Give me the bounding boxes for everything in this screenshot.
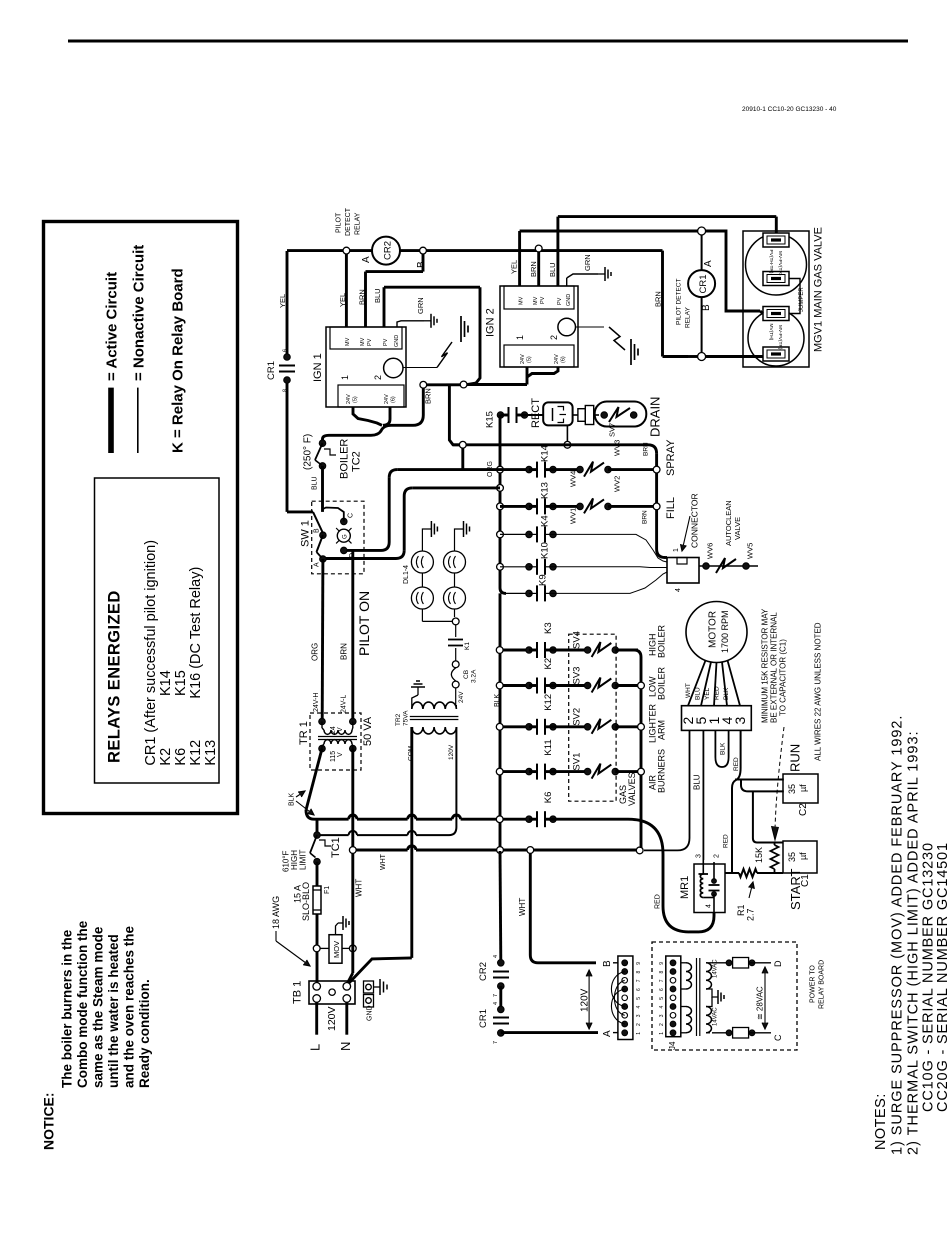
svg-text:RED: RED	[714, 686, 721, 700]
svg-text:8: 8	[659, 971, 665, 974]
svg-text:BLK: BLK	[289, 792, 296, 806]
svg-text:B: B	[314, 528, 321, 533]
svg-text:RELAY: RELAY	[355, 212, 362, 235]
svg-text:BRN: BRN	[529, 261, 538, 277]
svg-text:SV1: SV1	[572, 753, 583, 771]
svg-text:PV: PV	[383, 338, 389, 346]
svg-text:1700 RPM: 1700 RPM	[720, 610, 730, 653]
svg-text:C2: C2	[798, 803, 809, 816]
svg-text:START: START	[788, 869, 803, 910]
svg-text:SV3: SV3	[572, 667, 583, 685]
svg-text:115: 115	[330, 751, 337, 762]
svg-text:14VAC: 14VAC	[713, 1007, 719, 1026]
svg-text:2: 2	[659, 1023, 665, 1026]
svg-text:YEL: YEL	[278, 294, 287, 308]
svg-text:BE EXTERNAL OR INTERNAL: BE EXTERNAL OR INTERNAL	[770, 612, 779, 723]
svg-text:MINIMUM 15K RESISTOR MAY: MINIMUM 15K RESISTOR MAY	[761, 608, 770, 723]
svg-text:PV: PV	[540, 296, 546, 304]
svg-text:(5): (5)	[527, 356, 533, 363]
svg-text:3.2A: 3.2A	[471, 669, 478, 683]
svg-text:120V: 120V	[580, 988, 591, 1012]
svg-text:3: 3	[696, 854, 703, 858]
svg-text:SV7: SV7	[608, 423, 617, 437]
svg-text:ALL WIRES 22 AWG UNLESS NOTED: ALL WIRES 22 AWG UNLESS NOTED	[814, 622, 823, 761]
svg-text:WHT: WHT	[355, 879, 364, 897]
svg-text:TR 1: TR 1	[298, 721, 310, 745]
svg-text:K11: K11	[543, 739, 554, 755]
svg-text:SV2: SV2	[572, 708, 583, 726]
svg-text:WV6: WV6	[706, 543, 715, 559]
svg-text:WV2: WV2	[613, 476, 622, 492]
svg-text:YEL: YEL	[510, 260, 519, 274]
svg-text:C: C	[348, 513, 355, 518]
svg-text:50 VA: 50 VA	[362, 716, 374, 746]
svg-text:3: 3	[659, 1014, 665, 1017]
svg-text:BOILER: BOILER	[339, 439, 351, 479]
svg-text:B: B	[416, 261, 427, 268]
svg-text:CR1: CR1	[266, 361, 277, 380]
svg-text:L: L	[308, 1044, 323, 1051]
svg-text:120V: 120V	[326, 1006, 338, 1031]
svg-text:= Active Circuit: = Active Circuit	[104, 272, 121, 381]
svg-text:75VA: 75VA	[403, 710, 410, 726]
svg-text:BLU: BLU	[693, 774, 702, 790]
svg-text:24V: 24V	[384, 394, 390, 404]
svg-text:A: A	[361, 256, 372, 263]
svg-text:4: 4	[493, 955, 499, 958]
svg-text:R1: R1	[736, 904, 746, 916]
svg-text:D: D	[773, 960, 783, 967]
svg-text:7: 7	[493, 1041, 499, 1044]
svg-text:7: 7	[659, 979, 665, 982]
svg-text:CC20G - SERIAL NUMBER GC14501: CC20G - SERIAL NUMBER GC14501	[935, 842, 950, 1112]
svg-text:(5): (5)	[353, 396, 359, 403]
svg-text:TO CAPACITOR (C1): TO CAPACITOR (C1)	[779, 639, 788, 716]
svg-text:PV: PV	[557, 297, 563, 305]
svg-text:B: B	[701, 304, 712, 311]
svg-text:24V-L: 24V-L	[341, 695, 348, 713]
svg-text:MV(TH): MV(TH)	[768, 324, 774, 341]
svg-text:RED: RED	[723, 834, 730, 848]
svg-text:2.7: 2.7	[746, 908, 756, 921]
svg-text:MV-PV(TR): MV-PV(TR)	[777, 325, 783, 350]
svg-text:K16 (DC Test Relay): K16 (DC Test Relay)	[188, 567, 204, 699]
svg-text:BLK: BLK	[723, 687, 730, 700]
svg-text:120V: 120V	[448, 744, 455, 760]
svg-text:WV1: WV1	[569, 508, 578, 524]
svg-text:K13: K13	[203, 740, 219, 766]
svg-text:K9: K9	[538, 574, 549, 586]
svg-text:µf: µf	[798, 784, 808, 792]
svg-text:Ready condition.: Ready condition.	[137, 979, 152, 1088]
svg-text:POWER TO: POWER TO	[810, 965, 817, 1003]
svg-text:K12: K12	[188, 740, 204, 766]
svg-text:FILL: FILL	[665, 497, 677, 519]
svg-text:BRN: BRN	[340, 643, 349, 660]
svg-text:5: 5	[659, 997, 665, 1000]
svg-text:RED: RED	[733, 757, 740, 771]
svg-text:GRN: GRN	[583, 254, 592, 271]
svg-text:WV5: WV5	[746, 543, 755, 559]
svg-text:WHT: WHT	[380, 853, 387, 870]
svg-text:MV: MV	[345, 337, 351, 346]
svg-text:K14: K14	[540, 445, 551, 462]
svg-text:PV(TH-TR): PV(TH-TR)	[768, 250, 774, 274]
svg-text:6: 6	[283, 349, 289, 352]
svg-text:SLO-BLO: SLO-BLO	[301, 882, 311, 921]
svg-text:JUMPER: JUMPER	[799, 287, 805, 312]
svg-text:RELAY BOARD: RELAY BOARD	[819, 960, 826, 1009]
svg-text:GND: GND	[566, 294, 572, 306]
svg-text:24V: 24V	[554, 354, 560, 364]
svg-text:4: 4	[659, 1006, 665, 1009]
svg-text:K2: K2	[543, 658, 554, 670]
svg-text:20910-1 CC10-20 GC13230 - 40: 20910-1 CC10-20 GC13230 - 40	[742, 106, 837, 113]
svg-text:CR2: CR2	[478, 962, 489, 981]
svg-text:8: 8	[636, 971, 642, 974]
svg-text:K14: K14	[158, 670, 174, 696]
svg-text:Combo mode function the: Combo mode function the	[75, 920, 90, 1088]
svg-text:6: 6	[636, 988, 642, 991]
svg-text:3: 3	[732, 717, 748, 725]
svg-text:PILOT DETECT: PILOT DETECT	[676, 278, 683, 325]
svg-text:MV: MV	[360, 337, 366, 346]
svg-text:G: G	[343, 534, 349, 539]
svg-text:5: 5	[636, 997, 642, 1000]
svg-text:DL1-4: DL1-4	[403, 565, 410, 584]
svg-text:BLU: BLU	[695, 687, 702, 700]
svg-text:24: 24	[330, 726, 337, 734]
svg-text:C: C	[773, 1034, 783, 1041]
svg-text:BRN: BRN	[358, 289, 367, 305]
svg-text:1: 1	[515, 335, 525, 340]
svg-text:DETECT: DETECT	[345, 207, 352, 236]
svg-text:RECT: RECT	[530, 398, 542, 428]
svg-text:4: 4	[675, 588, 682, 592]
svg-text:2) THERMAL SWITCH (HIGH LIMIT): 2) THERMAL SWITCH (HIGH LIMIT) ADDED APR…	[906, 730, 922, 1155]
svg-text:2: 2	[636, 1023, 642, 1026]
svg-text:LIMIT: LIMIT	[299, 849, 308, 870]
svg-text:WV4: WV4	[569, 471, 578, 487]
svg-text:MGV1 MAIN GAS VALVE: MGV1 MAIN GAS VALVE	[813, 227, 825, 352]
svg-text:(6): (6)	[391, 396, 397, 403]
svg-text:RED: RED	[655, 894, 662, 909]
svg-text:18 AWG: 18 AWG	[271, 896, 281, 929]
svg-text:RELAY: RELAY	[685, 307, 692, 328]
svg-text:6: 6	[659, 988, 665, 991]
svg-text:35: 35	[787, 852, 797, 862]
svg-text:TC1: TC1	[330, 837, 342, 858]
svg-text:1: 1	[340, 375, 350, 380]
svg-text:7: 7	[493, 994, 499, 997]
svg-text:1) SURGE SUPPRESSOR (MOV) ADDE: 1) SURGE SUPPRESSOR (MOV) ADDED FEBRUARY…	[890, 715, 906, 1155]
svg-text:TR2: TR2	[395, 713, 402, 726]
svg-text:K6: K6	[173, 748, 189, 766]
svg-text:RELAYS ENERGIZED: RELAYS ENERGIZED	[106, 590, 124, 763]
svg-text:K6: K6	[543, 792, 554, 804]
svg-text:7: 7	[636, 979, 642, 982]
svg-text:K3: K3	[543, 622, 554, 634]
svg-text:A: A	[314, 562, 321, 567]
svg-text:IGN 2: IGN 2	[485, 308, 497, 337]
svg-text:WHT: WHT	[685, 683, 692, 698]
svg-text:24V: 24V	[520, 354, 526, 364]
svg-text:K2: K2	[158, 748, 174, 766]
svg-text:24V-H: 24V-H	[313, 693, 320, 712]
svg-text:GRN: GRN	[416, 297, 425, 314]
svg-text:BLU: BLU	[373, 288, 382, 303]
svg-text:K15: K15	[173, 670, 189, 696]
svg-text:YEL: YEL	[338, 293, 347, 307]
svg-text:BLU: BLU	[312, 476, 319, 490]
svg-text:F1: F1	[324, 886, 331, 894]
svg-text:BLK: BLK	[720, 742, 727, 755]
svg-text:ORG: ORG	[311, 643, 320, 661]
svg-text:1: 1	[636, 1032, 642, 1035]
svg-text:K1: K1	[464, 642, 471, 650]
svg-text:WV3: WV3	[613, 440, 622, 456]
svg-text:and the oven reaches the: and the oven reaches the	[122, 925, 137, 1088]
svg-text:IGN 1: IGN 1	[312, 353, 324, 382]
svg-text:MV: MV	[519, 296, 525, 305]
svg-text:SW 1: SW 1	[300, 520, 312, 547]
svg-text:BLK: BLK	[494, 693, 501, 707]
svg-text:until the water is heated: until the water is heated	[106, 934, 121, 1088]
svg-text:PILOT ON: PILOT ON	[356, 591, 372, 656]
svg-text:24V: 24V	[458, 691, 465, 703]
svg-text:YEL: YEL	[704, 687, 711, 700]
svg-text:GND: GND	[394, 335, 400, 347]
svg-text:CR2: CR2	[383, 241, 394, 260]
svg-text:N: N	[338, 1042, 353, 1051]
svg-text:1: 1	[673, 548, 680, 552]
svg-text:CR1: CR1	[478, 1009, 489, 1028]
svg-text:A: A	[602, 1030, 613, 1037]
svg-text:RUN: RUN	[788, 744, 803, 772]
svg-text:MOTOR: MOTOR	[708, 611, 719, 648]
svg-text:ARM: ARM	[657, 720, 667, 740]
svg-text:4: 4	[706, 904, 713, 908]
svg-text:2: 2	[549, 335, 559, 340]
svg-text:A: A	[703, 260, 714, 267]
svg-text:J4: J4	[668, 1041, 677, 1050]
svg-text:TB 1: TB 1	[292, 981, 304, 1004]
svg-text:µf: µf	[798, 852, 808, 860]
svg-text:K15: K15	[485, 411, 496, 428]
svg-text:same as the Steam mode: same as the Steam mode	[91, 926, 106, 1088]
svg-text:BOILER: BOILER	[657, 624, 667, 658]
svg-text:BRN: BRN	[642, 510, 649, 524]
svg-text:GND: GND	[367, 1005, 374, 1021]
svg-text:SPRAY: SPRAY	[665, 439, 677, 476]
svg-text:WHT: WHT	[518, 898, 527, 916]
svg-text:4: 4	[493, 1002, 499, 1005]
svg-text:3: 3	[636, 1014, 642, 1017]
svg-text:(6): (6)	[561, 356, 567, 363]
svg-text:MR1: MR1	[679, 876, 691, 899]
svg-text:≅ 28VAC: ≅ 28VAC	[756, 986, 765, 1020]
svg-text:BLU: BLU	[548, 262, 557, 277]
svg-text:CR1: CR1	[698, 274, 709, 293]
svg-text:MV-PV(TR): MV-PV(TR)	[777, 251, 783, 276]
svg-text:K = Relay On Relay Board: K = Relay On Relay Board	[170, 268, 187, 453]
svg-text:BRN: BRN	[424, 388, 433, 404]
svg-text:14VAC: 14VAC	[713, 959, 719, 978]
svg-text:PV: PV	[367, 338, 373, 346]
svg-text:9: 9	[659, 962, 665, 965]
svg-text:CR1 (After successful pilot ig: CR1 (After successful pilot ignition)	[143, 540, 159, 766]
svg-text:(250° F): (250° F)	[303, 434, 314, 470]
svg-text:4: 4	[636, 1006, 642, 1009]
svg-text:= Nonactive Circuit: = Nonactive Circuit	[131, 245, 148, 381]
svg-text:CB: CB	[463, 670, 470, 679]
svg-text:2: 2	[373, 375, 383, 380]
svg-text:AUTOCLEAN: AUTOCLEAN	[724, 500, 733, 546]
svg-text:8: 8	[283, 389, 289, 392]
svg-text:35: 35	[787, 784, 797, 794]
svg-text:MV: MV	[533, 296, 539, 305]
svg-text:BRN: BRN	[654, 291, 663, 307]
svg-text:BURNERS: BURNERS	[657, 749, 667, 793]
svg-text:K12: K12	[543, 694, 554, 711]
svg-text:K10: K10	[540, 542, 551, 559]
svg-text:15K: 15K	[754, 847, 764, 863]
svg-text:DRAIN: DRAIN	[648, 397, 663, 437]
svg-text:V: V	[337, 752, 344, 757]
svg-text:9: 9	[636, 962, 642, 965]
svg-text:V: V	[337, 727, 344, 732]
svg-text:2: 2	[714, 854, 721, 858]
svg-text:TC2: TC2	[351, 451, 363, 472]
svg-text:NOTICE:: NOTICE:	[41, 1092, 57, 1150]
svg-text:24V: 24V	[346, 394, 352, 404]
svg-text:NOTES:: NOTES:	[873, 1093, 889, 1150]
svg-text:1: 1	[659, 1032, 665, 1035]
svg-text:CONNECTOR: CONNECTOR	[690, 493, 700, 548]
svg-text:B: B	[602, 960, 613, 967]
svg-text:BRN: BRN	[643, 442, 650, 456]
svg-text:MOV: MOV	[332, 941, 341, 958]
svg-text:PILOT: PILOT	[336, 212, 343, 233]
svg-text:K4: K4	[540, 515, 551, 527]
svg-text:K13: K13	[540, 482, 551, 499]
svg-text:VALVES: VALVES	[627, 772, 637, 806]
svg-text:The boiler burners in the: The boiler burners in the	[60, 929, 75, 1088]
svg-text:BOILER: BOILER	[657, 666, 667, 700]
svg-text:VALVE: VALVE	[733, 517, 742, 540]
